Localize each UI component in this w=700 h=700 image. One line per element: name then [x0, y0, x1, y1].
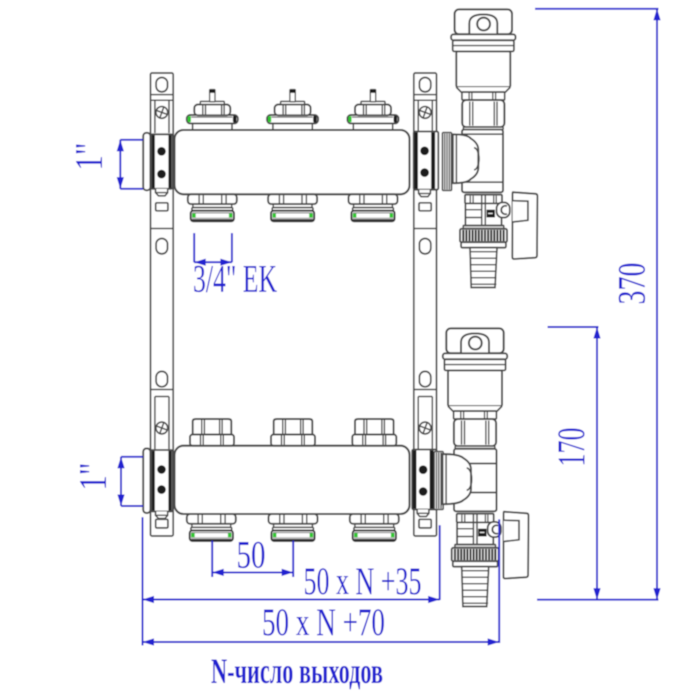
- svg-text:370: 370: [611, 263, 654, 305]
- bottom manifold body: [175, 446, 410, 514]
- top manifold valve insert 2: [267, 90, 318, 131]
- bottom manifold hex plug 2: [271, 419, 315, 446]
- dimension 1 inch (bottom left): [117, 457, 143, 506]
- label 1 inch (top): [68, 143, 111, 171]
- top manifold body: [175, 130, 410, 194]
- bottom manifold outlet 1 (3/4 EK): [187, 514, 236, 541]
- label 170: [550, 428, 593, 467]
- bottom tee fitting: [443, 449, 497, 512]
- svg-text:50 x N +70: 50 x N +70: [262, 601, 385, 644]
- label 50 x N +35: [304, 560, 422, 603]
- svg-text:1": 1": [72, 463, 115, 491]
- bottom manifold right union nut: [412, 450, 437, 517]
- top tee fitting: [453, 130, 503, 193]
- bottom manifold hex plug 3: [352, 419, 396, 446]
- dimension 50 x N +70: [143, 519, 500, 645]
- bottom automatic air vent: [443, 328, 507, 448]
- svg-text:N-число выходов: N-число выходов: [211, 651, 383, 691]
- dimension 370 (right): [535, 9, 661, 600]
- label 50 x N +70: [262, 601, 385, 644]
- top adapter ribs: [443, 133, 452, 191]
- dimension 1 inch (top left): [117, 140, 143, 189]
- label 370: [611, 263, 654, 305]
- dimension 170 (right): [537, 327, 659, 600]
- bottom manifold outlet 2 (3/4 EK): [269, 514, 318, 541]
- top manifold valve insert 1: [187, 90, 238, 131]
- dimension 50 (outlet spacing): [212, 541, 293, 577]
- svg-text:1": 1": [68, 143, 111, 171]
- bottom drain valve handle: [488, 512, 529, 579]
- svg-text:50 x N +35: 50 x N +35: [304, 560, 422, 603]
- top manifold outlet 2 (3/4 EK): [268, 194, 317, 221]
- label 50: [237, 534, 266, 577]
- right mounting bracket rail: [414, 73, 437, 536]
- top manifold right union nut: [414, 132, 439, 197]
- dimension 3/4 inch EK: [194, 233, 232, 266]
- bottom drain valve with hose barb: [452, 514, 499, 607]
- label N - number of outlets: [211, 651, 383, 691]
- top manifold outlet 1 (3/4 EK): [188, 194, 237, 221]
- top manifold outlet 3 (3/4 EK): [349, 194, 398, 221]
- label 1 inch (bottom): [72, 463, 115, 491]
- bottom manifold hex plug 1: [190, 419, 234, 446]
- bottom manifold left end cap and union nut: [143, 449, 172, 519]
- top drain valve with hose barb: [460, 195, 507, 288]
- left mounting bracket rail: [151, 73, 174, 536]
- top manifold valve insert 3: [348, 90, 399, 131]
- bottom adapter ribs: [434, 452, 443, 510]
- label 3/4" EK: [193, 258, 277, 301]
- top manifold left end cap and union nut: [143, 133, 172, 196]
- svg-text:170: 170: [550, 428, 593, 467]
- bottom manifold outlet 3 (3/4 EK): [350, 514, 399, 541]
- top automatic air vent: [451, 9, 515, 129]
- svg-text:50: 50: [237, 534, 266, 577]
- dimension 50 x N +35: [143, 517, 440, 645]
- top drain valve handle: [497, 192, 538, 259]
- svg-text:3/4" EK: 3/4" EK: [193, 258, 277, 301]
